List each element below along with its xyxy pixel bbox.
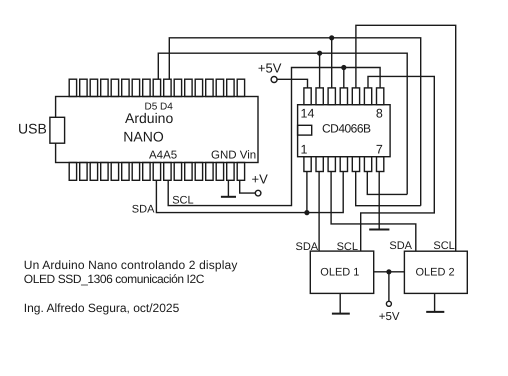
svg-text:SDA: SDA xyxy=(132,203,155,215)
svg-text:GND Vin: GND Vin xyxy=(211,150,256,162)
svg-text:OLED 1: OLED 1 xyxy=(320,266,359,278)
svg-text:Ing. Alfredo Segura, oct/2025: Ing. Alfredo Segura, oct/2025 xyxy=(24,301,180,315)
svg-text:A4A5: A4A5 xyxy=(149,150,177,162)
svg-text:Un Arduino Nano controlando 2: Un Arduino Nano controlando 2 display xyxy=(24,258,238,272)
svg-text:14: 14 xyxy=(301,107,315,121)
svg-text:OLED SSD_1306 comunicación I2C: OLED SSD_1306 comunicación I2C xyxy=(24,272,205,286)
svg-text:CD4066B: CD4066B xyxy=(322,122,371,136)
svg-text:USB: USB xyxy=(18,121,47,137)
svg-text:SCL: SCL xyxy=(172,194,193,206)
svg-text:+5V: +5V xyxy=(379,311,400,323)
svg-text:SDA: SDA xyxy=(389,240,412,252)
svg-text:OLED 2: OLED 2 xyxy=(416,266,455,278)
svg-text:+5V: +5V xyxy=(258,61,282,76)
svg-text:8: 8 xyxy=(376,107,383,121)
svg-text:7: 7 xyxy=(376,143,383,157)
svg-text:SCL: SCL xyxy=(433,240,454,252)
svg-text:NANO: NANO xyxy=(123,129,164,145)
svg-text:SDA: SDA xyxy=(296,241,319,253)
svg-text:SCL: SCL xyxy=(337,241,358,253)
svg-text:1: 1 xyxy=(301,143,308,157)
svg-text:Arduino: Arduino xyxy=(125,110,173,126)
svg-text:+V: +V xyxy=(252,171,269,186)
